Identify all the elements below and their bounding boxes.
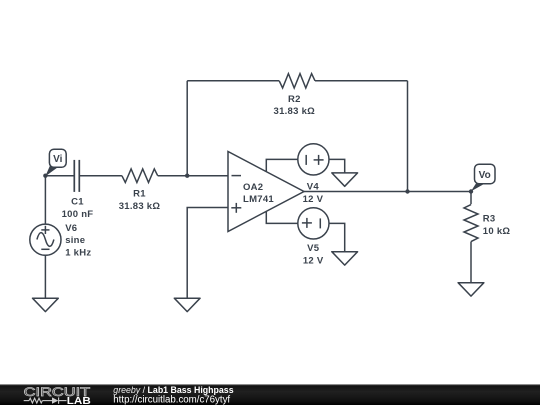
wire Vi down to V6 xyxy=(44,176,46,224)
svg-text:Vi: Vi xyxy=(53,154,62,165)
resistor R3 xyxy=(464,205,478,242)
node A junction R1 feedback xyxy=(185,174,189,178)
svg-text:LAB: LAB xyxy=(67,396,91,405)
wire V6 to ground xyxy=(44,255,46,298)
svg-text:100 nF: 100 nF xyxy=(62,209,94,220)
ground plus input xyxy=(174,298,200,311)
wire output xyxy=(304,191,471,193)
resistor R1 xyxy=(122,169,158,183)
svg-text:Vo: Vo xyxy=(479,170,491,181)
wire R3 to ground xyxy=(470,242,472,283)
svg-text:V6: V6 xyxy=(65,223,77,234)
voltage source V6 xyxy=(30,224,61,255)
wire feedback top left xyxy=(187,80,279,82)
svg-text:12 V: 12 V xyxy=(303,255,324,266)
flag Vo xyxy=(471,164,495,191)
footer bar xyxy=(0,384,540,405)
svg-text:1 kHz: 1 kHz xyxy=(65,247,91,258)
voltage source V4 xyxy=(298,144,329,175)
wire Vi to C1 xyxy=(45,175,74,177)
node feedback output junction xyxy=(405,189,409,193)
svg-text:R2: R2 xyxy=(288,94,301,105)
wire opamp V- pin stub xyxy=(266,211,298,223)
ground R3 xyxy=(458,283,484,296)
svg-text:12 V: 12 V xyxy=(303,194,324,205)
op-amp OA2 xyxy=(228,152,304,232)
svg-text:http://circuitlab.com/c76ytyf: http://circuitlab.com/c76ytyf xyxy=(113,395,230,405)
svg-text:LM741: LM741 xyxy=(243,194,274,205)
svg-text:10 kΩ: 10 kΩ xyxy=(483,226,511,237)
svg-text:C1: C1 xyxy=(71,196,84,207)
voltage source V5 xyxy=(298,208,329,239)
wire opamp plus input xyxy=(187,208,228,299)
logo squiggle wire xyxy=(24,397,67,403)
wire C1 to R1 xyxy=(79,175,122,177)
svg-text:R1: R1 xyxy=(133,189,146,200)
wire feedback top right xyxy=(315,80,408,82)
node Vi xyxy=(43,174,47,178)
svg-text:V5: V5 xyxy=(307,243,320,254)
capacitor C1 xyxy=(74,160,79,192)
wire V4 to ground xyxy=(329,159,345,173)
resistor R2 xyxy=(279,74,315,88)
wire feedback right vertical xyxy=(407,81,409,192)
node Vo xyxy=(469,189,473,193)
wire V5 to ground xyxy=(329,223,345,251)
ground V5 xyxy=(332,252,358,265)
svg-text:sine: sine xyxy=(65,235,85,246)
wire Vo to R3 xyxy=(470,192,472,205)
wire R1 to opamp minus input xyxy=(158,175,228,177)
svg-text:OA2: OA2 xyxy=(243,182,263,193)
svg-text:31.83 kΩ: 31.83 kΩ xyxy=(119,201,161,212)
wire opamp V+ pin stub xyxy=(266,159,298,172)
flag Vi xyxy=(45,149,66,176)
svg-text:R3: R3 xyxy=(483,213,496,224)
wire feedback left vertical xyxy=(186,81,188,176)
ground V6 xyxy=(33,298,59,311)
ground V4 xyxy=(332,173,358,186)
svg-text:31.83 kΩ: 31.83 kΩ xyxy=(274,106,316,117)
